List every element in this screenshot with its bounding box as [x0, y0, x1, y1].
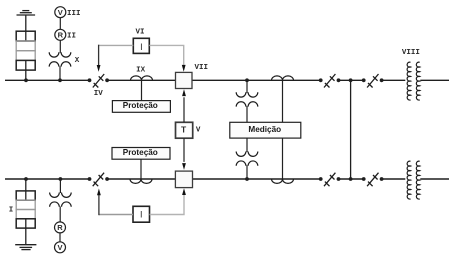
svg-text:V: V [196, 127, 201, 135]
wire ground to arrester [25, 15, 27, 41]
transformer (bottom-right) primary winding [407, 161, 410, 199]
trip wire VI to disconnector IV [97, 45, 134, 72]
terminal dot [380, 177, 384, 181]
junction VT / bus A [58, 78, 62, 82]
svg-text:II: II [67, 33, 76, 41]
terminal dot [319, 78, 323, 82]
wire bus A segment 4 [339, 79, 364, 81]
wire metering box to metering VT (bottom) [246, 138, 248, 152]
wire bus tie A-B [350, 80, 352, 179]
relay I (bottom) [133, 206, 150, 222]
svg-text:T: T [181, 124, 187, 134]
svg-text:III: III [67, 10, 81, 18]
trip wire relay I to breaker (bottom) [150, 188, 186, 214]
transfer relay T (V) [176, 122, 193, 138]
protection box (bus B) [112, 148, 170, 160]
disconnector (bus A, tie right) [367, 74, 378, 88]
metering voltage transformer (top) [236, 92, 258, 106]
wire bus B segment 1 [5, 178, 90, 180]
voltmeter V [55, 7, 66, 18]
relay R [55, 29, 66, 40]
metering current transformer (bottom) [272, 179, 294, 183]
terminal dot [380, 78, 384, 82]
terminal dot IV right [105, 78, 109, 82]
svg-text:X: X [75, 57, 80, 65]
current transformer (bus B) [130, 179, 152, 183]
svg-text:IV: IV [94, 90, 104, 98]
svg-text:VII: VII [195, 64, 209, 72]
svg-text:Medição: Medição [248, 125, 281, 134]
wire metering CT to metering box [282, 80, 284, 122]
disconnector (bus A, tie left) [324, 74, 335, 88]
trip wire VI to breaker VII [149, 45, 185, 71]
svg-text:Proteção: Proteção [123, 148, 158, 157]
junction VT / bus B [59, 177, 63, 181]
surge arrester I (bottom-left) [16, 191, 35, 228]
metering current transformer (top) [272, 76, 294, 80]
wire voltage transformer to bus A [59, 66, 61, 80]
transformer VIII secondary winding [416, 62, 419, 100]
wire bus A segment 1 [5, 79, 90, 81]
svg-text:I: I [140, 42, 143, 52]
wire metering VT to metering box [246, 106, 248, 122]
wire R to voltage transformer [59, 40, 61, 53]
voltage transformer X (top-left) [49, 52, 71, 66]
wire arrester to bus A [25, 60, 27, 80]
wire bus A segment 3 [192, 79, 321, 81]
wire bus A segment 6 [420, 79, 449, 81]
protection box (bus A) [112, 101, 170, 113]
terminal dot [337, 78, 341, 82]
trip wire relay I to disconnector (bottom) [97, 189, 133, 216]
svg-text:V: V [58, 8, 63, 17]
ground (bottom-left) [15, 245, 36, 250]
ground (top-left) [17, 11, 36, 15]
wire CT to protection box (bottom) [140, 159, 142, 179]
svg-text:R: R [58, 31, 64, 40]
wire R to V (bottom) [59, 233, 61, 242]
wire bus B segment 6 [420, 178, 449, 180]
wire bus B segment 2 [107, 178, 175, 180]
transformer (bottom-right) secondary winding [416, 161, 419, 199]
svg-text:R: R [57, 223, 63, 232]
relay R (bottom) [55, 222, 66, 233]
terminal dot [362, 78, 366, 82]
wire bus A segment 5 [382, 79, 406, 81]
svg-text:VIII: VIII [402, 49, 420, 57]
svg-text:IX: IX [136, 67, 146, 75]
wire bus B to voltage transformer [59, 179, 61, 193]
wire voltage transformer to relay R [59, 207, 61, 223]
junction arrester I / bus B [24, 177, 28, 181]
wire bus B to arrester I [25, 179, 27, 200]
metering box [230, 122, 301, 138]
wire T to breaker (bottom) [182, 138, 186, 170]
wire V to R [59, 18, 61, 30]
terminal dot IV left [88, 78, 92, 82]
transformer VIII primary winding [407, 62, 410, 100]
wire bus A to metering VT [246, 80, 248, 93]
junction arrester / bus A [24, 78, 28, 82]
wire metering CT to metering box (bottom) [282, 138, 284, 179]
circuit breaker VII [176, 72, 193, 88]
terminal dot [88, 177, 92, 181]
wire arrester I to ground [25, 219, 27, 245]
svg-text:VI: VI [135, 29, 144, 37]
svg-text:V: V [57, 243, 62, 252]
junction tie / bus A [349, 78, 353, 82]
wire metering VT to bus B [246, 165, 248, 179]
voltmeter V (bottom) [55, 242, 66, 253]
svg-text:Proteção: Proteção [123, 101, 158, 110]
svg-text:I: I [9, 206, 14, 214]
wire bus B segment 5 [382, 178, 406, 180]
junction metering VT / bus B [245, 177, 249, 181]
junction tie / bus B [349, 177, 353, 181]
metering voltage transformer (bottom) [236, 152, 258, 166]
wire bus A segment 2 [107, 79, 175, 81]
current transformer IX [131, 76, 153, 80]
wire CT IX to protection box [141, 80, 143, 100]
disconnector (bus B, tie left) [324, 173, 335, 187]
disconnector IV [93, 74, 104, 88]
relay I (VI, top) [133, 38, 149, 53]
surge arrester (top-left) [16, 31, 35, 70]
wire T to breaker VII [182, 89, 186, 122]
wire bus B segment 3 [193, 178, 321, 180]
terminal dot [319, 177, 323, 181]
disconnector (bus B, tie right) [367, 173, 378, 187]
wire bus B segment 4 [339, 178, 364, 180]
disconnector (bus B left) [93, 173, 104, 187]
junction metering VT / bus A [245, 78, 249, 82]
circuit breaker (bus B) [175, 171, 192, 188]
svg-text:I: I [140, 210, 143, 220]
terminal dot [105, 177, 109, 181]
terminal dot [362, 177, 366, 181]
terminal dot [337, 177, 341, 181]
voltage transformer (bottom-left) [50, 193, 72, 207]
